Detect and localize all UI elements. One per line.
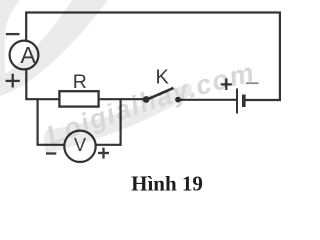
svg-text:Hình 19: Hình 19: [131, 172, 203, 196]
svg-text:R: R: [73, 71, 87, 93]
